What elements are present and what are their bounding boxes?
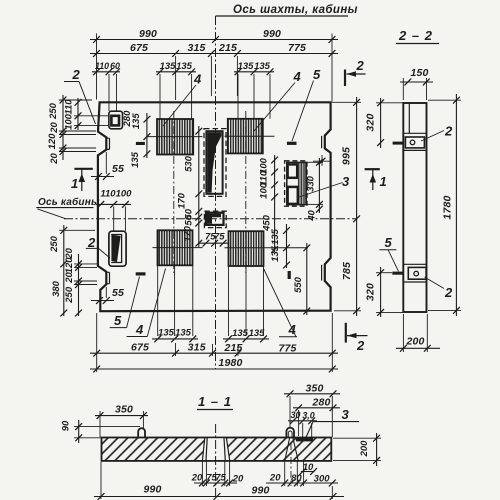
label "Ось кабины" with leader: [36, 196, 100, 219]
dim row 20/75/75/20 (section 1-1): [191, 461, 244, 486]
weld mark 5 on column top: [393, 142, 404, 145]
dim 320 bottom (section 2-2): [365, 267, 404, 317]
small central slot (75x75) dashed contour: [204, 211, 226, 227]
dim 110/100 mid-left: [96, 189, 132, 232]
svg-text:2: 2: [356, 58, 365, 73]
dim 280 right (section 1-1): [293, 397, 340, 437]
top insert detail 2 in column: [403, 124, 453, 151]
svg-text:200: 200: [359, 440, 370, 458]
svg-text:170: 170: [183, 225, 194, 242]
svg-text:3: 3: [342, 407, 350, 422]
svg-text:4: 4: [135, 322, 144, 337]
title: axis label "Ось шахты, кабины": [216, 4, 358, 16]
main vertical axis (Ось шахты) dash-dot: [215, 16, 217, 369]
dim 55 bottom-left notch: [91, 287, 124, 304]
svg-text:775: 775: [278, 343, 296, 355]
svg-text:135: 135: [238, 61, 255, 72]
svg-text:110: 110: [64, 99, 75, 115]
lifting loop left: [138, 428, 145, 437]
svg-text:315: 315: [187, 42, 205, 54]
svg-text:785: 785: [341, 262, 353, 280]
dim row 990+990 top: [90, 28, 338, 102]
svg-text:110: 110: [95, 61, 109, 71]
hatched plate 4 top-left: [147, 119, 203, 155]
svg-text:50: 50: [184, 214, 195, 225]
svg-text:550: 550: [293, 276, 304, 293]
svg-text:2: 2: [356, 338, 365, 353]
svg-text:530: 530: [184, 155, 195, 172]
svg-text:250: 250: [64, 286, 75, 304]
svg-text:120: 120: [47, 133, 58, 150]
label 5 with leader (section 2-2): [379, 235, 398, 271]
svg-text:5: 5: [114, 313, 122, 328]
central slot (530) dashed contour: [204, 129, 226, 197]
svg-text:75: 75: [214, 232, 225, 243]
svg-text:20: 20: [49, 153, 60, 165]
left inner chain 20/120/20/250 bottom: [64, 247, 97, 316]
dim row 675/315/215/775 bottom: [90, 342, 338, 357]
svg-text:250: 250: [49, 235, 60, 253]
left outer chain 250/20/120/20 top: [47, 95, 96, 165]
dim row 1980 bottom: [90, 313, 338, 372]
svg-text:2: 2: [444, 285, 453, 300]
svg-text:280: 280: [311, 397, 330, 409]
dim chain 530 / 170 / 50 50 170 beside central slot: [177, 126, 203, 247]
label 3 with leader (section 1-1): [306, 407, 360, 439]
svg-text:2: 2: [444, 124, 453, 139]
svg-text:20: 20: [49, 122, 60, 134]
small central slot black fill: [207, 214, 221, 224]
svg-text:170: 170: [177, 192, 188, 209]
svg-text:215: 215: [218, 42, 237, 54]
svg-text:135: 135: [160, 61, 177, 72]
svg-text:135: 135: [130, 151, 141, 168]
svg-text:90: 90: [61, 420, 72, 431]
svg-text:Ось кабины: Ось кабины: [38, 196, 100, 208]
svg-text:110: 110: [100, 189, 116, 200]
svg-text:995: 995: [341, 147, 353, 165]
section 1-1 title: [197, 394, 233, 410]
svg-text:990: 990: [139, 28, 157, 40]
dim 550 bottom-right interior: [293, 243, 310, 315]
ext line cross at right notch: [313, 155, 330, 166]
svg-text:380: 380: [51, 280, 62, 297]
central slot solid wall: [206, 131, 222, 194]
svg-text:2 – 2: 2 – 2: [398, 28, 433, 43]
svg-text:350: 350: [305, 383, 323, 395]
plate column centerline right pair: [245, 111, 247, 273]
svg-text:135: 135: [249, 328, 266, 339]
svg-text:200: 200: [405, 336, 424, 348]
section mark 1 left: [71, 169, 93, 191]
dim row 990/990 (section 1-1): [94, 462, 344, 500]
dim row 20/80/300 (section 1-1): [266, 443, 338, 486]
small central slot solid wall: [206, 213, 224, 225]
central slot black chamfer fill: [207, 132, 221, 192]
label 4 top-right with leader: [254, 69, 302, 131]
section 1-1 vertical axis: [215, 424, 217, 499]
dim 320 top (section 2-2): [365, 98, 404, 148]
svg-text:675: 675: [130, 42, 148, 54]
hatched plate 4 top-right: [225, 119, 275, 154]
svg-text:5: 5: [313, 67, 321, 82]
svg-text:80: 80: [291, 473, 302, 484]
dim 135/135 vertical top-left plate: [130, 113, 151, 168]
section mark 2 top-right: [345, 58, 366, 86]
left outer chain 250/380 bottom: [49, 225, 95, 316]
svg-text:1 – 1: 1 – 1: [198, 394, 232, 409]
svg-text:775: 775: [288, 42, 306, 54]
lower-left opening (2): [109, 231, 126, 266]
dim row 135/135 top-left pair: [156, 61, 196, 119]
svg-text:20: 20: [191, 473, 203, 484]
dim chain 995/785 right of plan: [332, 97, 361, 316]
svg-text:20: 20: [269, 473, 281, 484]
right loop trapezoid hole: [285, 438, 298, 460]
dim row 135/135 bottom-left pair: [152, 328, 198, 343]
dim 55 top-left notch: [91, 152, 124, 180]
svg-text:1: 1: [71, 176, 78, 191]
horizontal axis (Ось кабины) dash-dot: [64, 218, 357, 220]
right top notch inner line: [321, 136, 323, 148]
label 5 bottom-left with leader: [110, 277, 140, 329]
dim 150 over column: [400, 67, 433, 100]
hatched plate 4 bottom-right: [225, 231, 309, 266]
section 2-2 column body: [403, 103, 426, 312]
svg-text:135: 135: [270, 228, 281, 245]
weld mark 5 on column bottom: [392, 272, 403, 275]
svg-text:675: 675: [131, 342, 149, 354]
svg-text:350: 350: [115, 404, 133, 416]
svg-text:135: 135: [232, 328, 249, 339]
slab body hatched: [102, 438, 332, 461]
svg-text:315: 315: [188, 342, 206, 354]
section mark 1 right: [365, 169, 387, 190]
svg-text:150: 150: [410, 67, 428, 79]
dim 200 under column: [396, 314, 440, 352]
plan outline: [98, 102, 331, 311]
svg-text:1780: 1780: [442, 195, 454, 219]
label 4 top-left with leader: [163, 72, 202, 127]
column top recess line: [408, 103, 410, 133]
dim 30 3,0 (section 1-1): [288, 410, 317, 437]
svg-text:135: 135: [175, 328, 192, 339]
bottom insert detail 2 in column: [403, 264, 453, 300]
upper-left opening (280): [109, 111, 123, 129]
svg-text:Ось шахты, кабины: Ось шахты, кабины: [233, 4, 358, 16]
label 4 bottom-left with leader: [127, 269, 166, 338]
svg-text:135: 135: [270, 245, 281, 262]
svg-text:250: 250: [48, 102, 59, 120]
weld mark 5 bottom-right (vertical): [288, 271, 291, 279]
svg-text:4: 4: [193, 72, 202, 87]
svg-text:5: 5: [385, 235, 393, 250]
hatched plate 4 bottom-left: [153, 230, 203, 265]
dim 350 right (section 1-1): [284, 383, 340, 438]
left top notch tab: [106, 138, 109, 149]
embedded black plate (3) on slab: [296, 438, 313, 442]
right bottom notch inner line: [321, 265, 323, 281]
label 2 bottom-left with leader: [86, 235, 110, 258]
svg-text:320: 320: [365, 113, 377, 131]
svg-text:135: 135: [158, 328, 175, 339]
svg-text:55: 55: [112, 163, 124, 175]
svg-text:990: 990: [251, 485, 269, 497]
label 4 bottom-right with leader: [264, 269, 298, 338]
label 3 with leader: [298, 174, 351, 198]
dim 75/75 under small slot: [199, 232, 229, 247]
svg-text:215: 215: [223, 342, 242, 354]
left bottom notch tab: [106, 272, 109, 283]
dim row 675/315/215/775 top: [90, 42, 338, 100]
dim row 110/60 top-left: [92, 61, 120, 111]
embedded unit 3 right side: [285, 161, 307, 206]
weld mark 5 top-left: [136, 142, 145, 145]
dim 200 right (section 1-1): [333, 433, 381, 466]
svg-text:4: 4: [293, 69, 302, 84]
svg-text:20: 20: [232, 474, 244, 485]
svg-text:300: 300: [314, 474, 331, 485]
svg-text:990: 990: [143, 484, 161, 496]
dim 90 left (section 1-1): [61, 420, 141, 443]
dim row 135/135 bottom-right pair: [223, 328, 269, 342]
svg-text:100: 100: [64, 113, 75, 130]
dim 350 left (section 1-1): [95, 404, 148, 438]
dim 135/135 vertical bottom-right plate: [270, 224, 290, 268]
dim row 135/135 top-right pair: [234, 61, 274, 119]
label 2 top-left with leader: [64, 67, 96, 124]
dim chain 100/110/100/450 right of plates: [259, 155, 279, 253]
label 5 top-right with leader: [292, 67, 321, 141]
svg-text:135: 135: [254, 61, 271, 72]
svg-text:2: 2: [72, 67, 81, 82]
plate column centerline left pair: [173, 111, 175, 273]
ext lines below plates to bottom dims: [158, 266, 264, 336]
svg-text:2: 2: [87, 235, 96, 250]
lifting loop right: [286, 428, 294, 438]
svg-text:990: 990: [263, 28, 281, 40]
svg-text:1980: 1980: [218, 357, 242, 369]
dim 330 and 40 right of unit 3: [306, 158, 324, 222]
svg-text:330: 330: [306, 175, 317, 192]
svg-text:120: 120: [64, 257, 75, 274]
svg-text:3: 3: [342, 174, 350, 189]
section 2-2 title: [396, 28, 439, 44]
svg-text:20: 20: [64, 272, 75, 284]
svg-text:55: 55: [112, 287, 124, 299]
svg-text:100: 100: [116, 189, 133, 200]
svg-text:135: 135: [176, 61, 193, 72]
left inner chain 110/100 top: [64, 98, 110, 130]
weld mark 5 top-right: [287, 142, 297, 145]
dim 1780 (section 2-2): [428, 94, 461, 316]
svg-text:1: 1: [380, 174, 387, 189]
svg-text:100: 100: [259, 182, 270, 199]
svg-text:135: 135: [131, 113, 142, 130]
section mark 2 bottom-right: [346, 323, 368, 353]
dim 10 (section 1-1): [299, 462, 317, 475]
weld mark 5 bottom-left: [136, 272, 146, 275]
svg-text:320: 320: [365, 283, 377, 301]
center trapezoid hole in slab: [202, 438, 229, 461]
svg-text:60: 60: [110, 61, 120, 71]
svg-text:40: 40: [307, 210, 318, 222]
